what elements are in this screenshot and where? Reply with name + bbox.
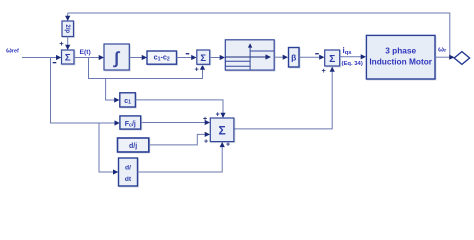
sign minus at sum1 left input: [53, 62, 57, 63]
sign minus at sum2 left input: [186, 53, 190, 54]
svg-text:E(t): E(t): [80, 49, 91, 56]
relay icon upper level line: [250, 50, 274, 52]
wire wref to sum1: [22, 57, 57, 59]
block Fw/j: [121, 117, 142, 130]
svg-text:+: +: [226, 141, 230, 148]
wire sum3 to motor with iqs label: [340, 56, 361, 58]
block c1: [121, 94, 137, 108]
svg-text:ωref: ωref: [6, 48, 19, 55]
svg-text:Σ: Σ: [218, 124, 225, 138]
wire sum4 output up to sum3 bottom: [235, 72, 333, 129]
svg-text:3 phase: 3 phase: [385, 45, 416, 55]
svg-text:d/: d/: [125, 165, 131, 172]
svg-text:Induction Motor: Induction Motor: [369, 56, 432, 66]
wire integrator to c1-c2: [129, 57, 142, 59]
relay icon mid axis arrow: [225, 56, 265, 58]
svg-text:dt: dt: [125, 176, 132, 183]
block d/dt: [120, 159, 139, 187]
wire branch down to d/dt feed: [99, 123, 114, 172]
wire top feedback horizontal: [68, 13, 450, 57]
svg-text:β: β: [291, 53, 296, 63]
summing junction sum3: [326, 51, 341, 67]
wire top feedback into 2/p: [67, 13, 69, 16]
block d/j: [119, 139, 150, 153]
svg-text:Σ: Σ: [200, 53, 206, 64]
svg-text:Σ: Σ: [329, 54, 335, 65]
wire branch down from wref line to Fw/j feed: [51, 58, 116, 123]
svg-text:c1: c1: [124, 98, 131, 106]
svg-text:2/p: 2/p: [64, 24, 70, 33]
block integrator: [105, 45, 130, 71]
summing junction sum1: [63, 51, 76, 65]
wire relay to beta: [274, 56, 283, 58]
wire sum1 to integrator: [74, 57, 99, 59]
svg-text:Σ: Σ: [65, 53, 71, 64]
relay icon lower level lines: [225, 60, 250, 62]
svg-text:Fc/j: Fc/j: [125, 121, 136, 129]
wire Fw/j output to sum4 left upper: [141, 122, 205, 124]
svg-text:d/j: d/j: [129, 143, 137, 150]
svg-text:+: +: [322, 66, 327, 75]
wire 2/p output down into sum1: [67, 37, 69, 46]
svg-text:iqs: iqs: [343, 46, 352, 56]
wire d/dt output to sum4 bottom: [138, 147, 223, 172]
wire branch down to c1 block: [106, 79, 115, 101]
block 2/p: [63, 22, 75, 38]
wire c1-c2 to sum2: [177, 57, 192, 59]
wire motor output to diamond: [435, 56, 450, 58]
block c1-c2: [148, 52, 178, 65]
svg-text:ωr: ωr: [438, 45, 447, 55]
svg-text:(Eq. 34): (Eq. 34): [342, 61, 363, 67]
svg-text:+: +: [203, 116, 207, 123]
wire d/j output to sum4 left lower: [149, 134, 205, 145]
svg-text:+: +: [204, 138, 208, 145]
output port diamond: [454, 52, 469, 65]
svg-text:+: +: [59, 39, 64, 48]
summing junction sum4: [211, 119, 235, 143]
block beta: [290, 49, 301, 69]
block relay hysteresis: [226, 41, 275, 71]
wire sum2 to relay: [210, 57, 220, 59]
summing junction sum2: [198, 51, 211, 65]
block 3 phase induction motor: [367, 36, 436, 80]
wire branch E(t) down to sum2 bottom input: [89, 58, 203, 79]
wire beta to sum3: [299, 56, 320, 58]
sign minus at sum3 left input: [315, 53, 319, 54]
wire c1 output to sum4 top: [135, 100, 223, 113]
relay icon vertical line with up arrow: [249, 48, 251, 71]
